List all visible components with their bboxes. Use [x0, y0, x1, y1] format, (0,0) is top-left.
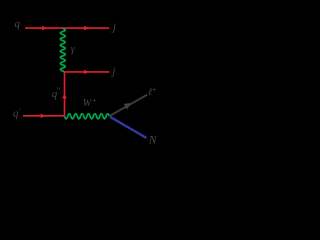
arrow on q line — [42, 26, 47, 31]
wire internal quark propagator q'' (vertical red) — [64, 72, 66, 116]
arrow on q' line — [41, 114, 46, 119]
wire outgoing jet line (middle, red) — [65, 71, 110, 73]
wire heavy neutrino line N (blue) — [110, 117, 147, 138]
wire incoming quark line q (top, red) — [25, 27, 109, 29]
arrow on q'' propagator (pointing up) — [62, 94, 67, 99]
svg-text:q: q — [15, 18, 21, 30]
svg-text:+: + — [152, 85, 157, 94]
svg-text:′: ′ — [18, 107, 20, 116]
arrow on lepton line — [124, 100, 133, 109]
wire lepton line l+ (gray) — [110, 95, 148, 116]
photon gamma propagator (vertical green wavy) — [60, 29, 65, 72]
svg-text:N: N — [148, 133, 158, 147]
arrow on outgoing j line (top) — [84, 26, 89, 31]
W+ boson propagator (horizontal green wavy) — [65, 114, 110, 119]
wire incoming quark line q' (bottom, red) — [23, 115, 65, 117]
svg-text:+: + — [92, 96, 97, 105]
arrow on middle j line — [84, 70, 89, 75]
